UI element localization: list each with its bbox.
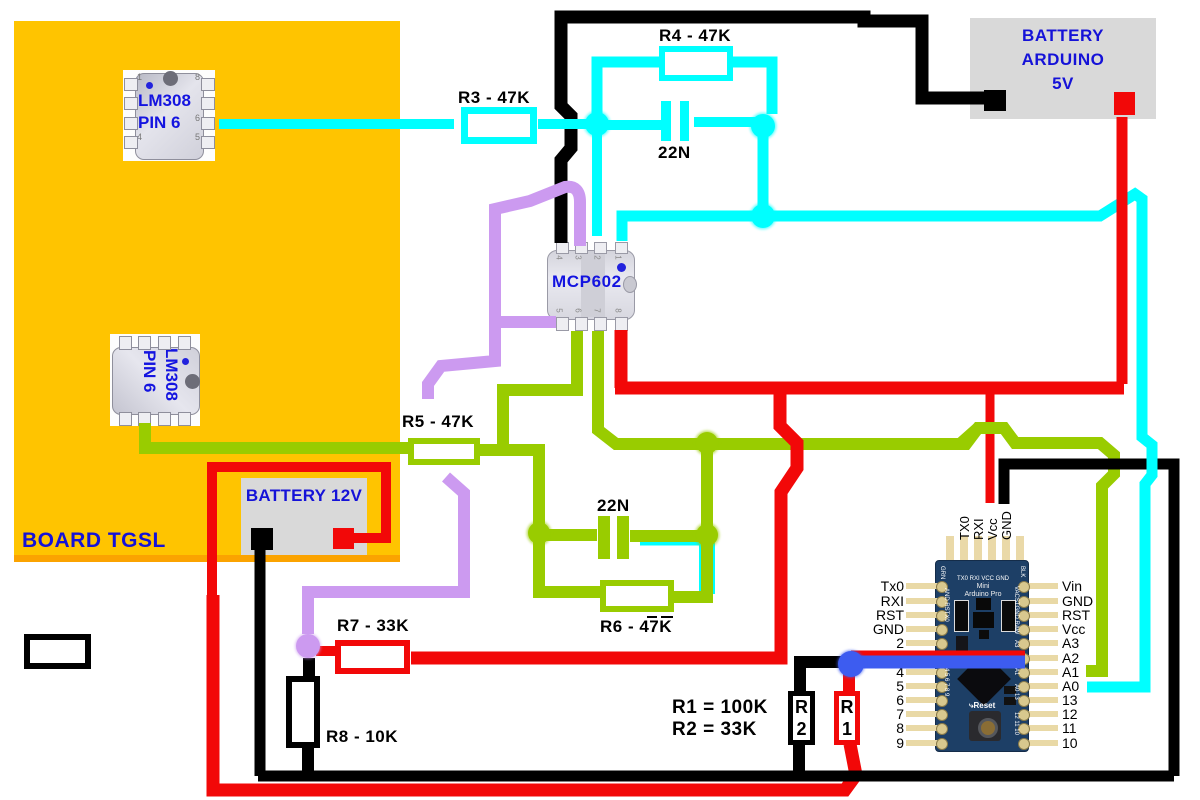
wire cyan sliver right of green vertical: [699, 543, 715, 594]
node D cyan junction: [584, 111, 611, 138]
wire green node C down to R6 left: [539, 533, 600, 592]
silk top texts: [950, 576, 1016, 582]
wire black bottom ground rail: [258, 771, 1174, 782]
board TGSL (yellow PCB area): [14, 21, 400, 562]
wire green node A down to node B: [701, 437, 713, 535]
wire black purple-node to R8 top: [303, 658, 315, 676]
node E cyan junction: [750, 113, 777, 140]
wire red R1 top to blue node: [843, 662, 855, 692]
wire cyan node D up to R4 left: [597, 62, 659, 132]
wire green LM308#2 pin to R5: [145, 423, 408, 448]
resistor R4: [659, 46, 733, 81]
wire green cap left plate to node C: [540, 529, 597, 541]
battery BATTERY ARDUINO 5V: [970, 18, 1156, 119]
top pin labels: [957, 504, 971, 540]
MCU diamond: [957, 652, 1011, 706]
PCB: [935, 560, 1029, 752]
wire green R5 up to MCP602 pin 6: [480, 331, 577, 450]
left pin stubs and pads: [906, 583, 938, 589]
note R1 R2 values: [672, 697, 768, 719]
resistor R8: [286, 676, 320, 748]
wire green node B to cap right plate: [630, 530, 707, 542]
wire purple lower run to purple node: [308, 477, 464, 634]
resistor R3: [461, 107, 537, 144]
reset label + button: [969, 701, 995, 711]
wire red thin under blue wire to arduino pin3: [851, 651, 1025, 656]
board TGSL label: [22, 529, 166, 553]
wire red rail down to arduino Vcc: [986, 392, 995, 503]
node purple junction at R7: [295, 633, 321, 659]
wire black battery 12V minus down: [255, 548, 266, 776]
op-amp U-LM308 #1 white patch: [123, 70, 215, 161]
wire cyan node D down to MCP602 pin 2: [592, 126, 602, 236]
top header pins: [946, 536, 954, 562]
wire purple continuing down left of MCP602: [428, 316, 495, 399]
resistor R7: [335, 640, 410, 674]
wire blue node to arduino pin 3: [858, 656, 1025, 669]
wire red MCP602 pin 8 to battery 5V plus rail: [615, 330, 628, 388]
resistor R5: [408, 438, 480, 465]
wire green MCP602 pin 7 to node A to arduino A1: [598, 331, 1114, 671]
node C green junction: [527, 521, 552, 546]
wire red rail down to R7 line: [411, 388, 797, 658]
battery BATTERY 12V: [241, 478, 367, 555]
wire purple MCP602 pin 3 hook to pin 5: [495, 187, 580, 322]
arduino pro mini board: [880, 500, 1200, 760]
wire cyan R3 to node D: [538, 119, 592, 129]
op-amp U-MCP602: [543, 240, 643, 335]
capacitor C-22N bottom label: [597, 496, 630, 516]
resistor R1: [834, 691, 860, 745]
wire cyan R4 right down to node E: [733, 62, 772, 114]
node A green junction: [695, 431, 720, 456]
wire green node B down to R6 right: [674, 541, 707, 597]
wire red rail redrawn over cyan crossing: [1117, 178, 1128, 242]
capacitor C1 22N top plates: [661, 101, 671, 141]
wire red purple-node to R7 left: [316, 646, 335, 656]
wire cyan node F to MCP602 pin 1: [622, 216, 757, 241]
node B green junction: [695, 523, 720, 548]
wire cyan LM308#1 pin 6 to R3: [219, 119, 454, 129]
wire cyan sliver under green vertical: [640, 541, 700, 546]
wire green jog over red rail: [960, 428, 1016, 444]
right small parts: [1004, 686, 1016, 694]
wire cyan node E down to node F: [758, 132, 769, 216]
wire cyan node F to arduino A0: [769, 194, 1152, 687]
op-amp U-LM308 #2 white patch: [110, 334, 200, 426]
small ICs: [954, 600, 969, 632]
op-amp LM308 #1: [123, 70, 215, 161]
capacitor C2 22N bottom plates: [598, 516, 610, 559]
capacitor C-22N top label: [658, 143, 691, 163]
wire red battery 12V loop to bottom rail: [212, 467, 386, 600]
node F cyan junction: [750, 203, 777, 230]
wire black R2 bottom to ground rail: [793, 745, 805, 777]
resistor R2: [788, 691, 815, 745]
left labels: [870, 578, 904, 594]
resistor R6: [600, 580, 674, 612]
battery 5V red terminal: [1114, 92, 1135, 115]
wire black blue-node to R2 top: [800, 662, 845, 691]
wire green node C up to R5 right: [480, 450, 539, 533]
wire cyan cap right plate to node E: [694, 117, 757, 127]
battery 12V red terminal: [333, 528, 354, 549]
wire black R8 bottom to ground rail: [302, 748, 314, 772]
battery 12V black terminal: [251, 528, 273, 550]
wire cyan node D to cap left plate: [604, 120, 661, 130]
node blue junction: [837, 650, 865, 678]
op-amp LM308 #2: [110, 334, 200, 426]
wire black MCP602 pin 4 to battery 5V minus: [561, 17, 990, 243]
wire black arduino GND top around right to ground rail: [1004, 464, 1174, 776]
legend empty rectangle: [24, 634, 91, 669]
battery 5V black terminal: [984, 90, 1006, 111]
